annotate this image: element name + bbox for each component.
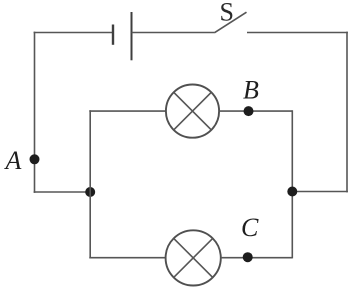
node B dot bbox=[244, 106, 254, 116]
svg-text:S: S bbox=[220, 0, 234, 27]
battery plate (short, negative terminal) bbox=[112, 25, 114, 45]
lamp (top, circle with X) bbox=[166, 85, 219, 138]
wire right outer vertical bbox=[346, 32, 348, 193]
wire battery to switch bbox=[132, 32, 215, 34]
node C dot bbox=[243, 252, 253, 262]
junction dot (left) bbox=[85, 187, 95, 197]
wire right horizontal (outer right to junction) bbox=[292, 191, 348, 193]
svg-text:A: A bbox=[4, 146, 22, 175]
wire top branch right (lamp to inner-right vertical) bbox=[219, 110, 292, 112]
svg-text:B: B bbox=[243, 76, 259, 105]
node A dot bbox=[30, 154, 40, 164]
junction dot (right) bbox=[287, 187, 297, 197]
battery plate (long, positive terminal) bbox=[131, 12, 133, 60]
wire bottom branch left (to lamp) bbox=[89, 257, 165, 259]
wire inner-right vertical bbox=[291, 110, 293, 258]
wire bottom-left horizontal (A leg to junction) bbox=[34, 191, 91, 193]
wire inner-left vertical bbox=[89, 110, 91, 258]
svg-text:C: C bbox=[241, 213, 259, 242]
wire top-left horizontal (left corner to battery) bbox=[34, 32, 113, 34]
lamp (bottom, circle with X) bbox=[166, 230, 221, 285]
wire switch contact to top-right corner bbox=[247, 32, 348, 34]
wire left outer vertical bbox=[34, 32, 36, 193]
switch S blade bbox=[214, 12, 246, 33]
wire bottom branch right (lamp to inner-right vertical) bbox=[221, 257, 292, 259]
wire top branch left (to lamp) bbox=[89, 110, 165, 112]
